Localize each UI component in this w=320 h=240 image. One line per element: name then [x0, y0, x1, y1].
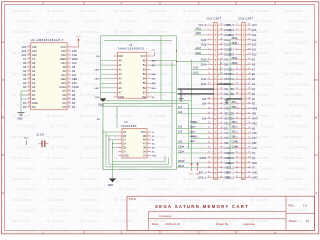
CN1 pin 26 — [177, 146, 231, 150]
svg-text:D13A: D13A — [224, 39, 230, 42]
svg-text:28: 28 — [208, 157, 210, 159]
svg-text:A3: A3 — [23, 73, 27, 77]
U2 pin 13 (left row 8) — [94, 87, 122, 90]
junction U3 row 3 — [108, 139, 109, 140]
svg-text:1A15: 1A15 — [201, 58, 207, 61]
svg-text:1A8: 1A8 — [202, 103, 207, 106]
svg-text:46: 46 — [220, 88, 222, 90]
U1 pin 26 (left row 7) — [23, 69, 36, 73]
svg-text:by traines: by traines — [51, 167, 70, 171]
svg-text:35: 35 — [220, 34, 222, 36]
CN1 pin 31 — [199, 171, 230, 174]
U1 pin 20 (left row 13) — [27, 93, 36, 97]
svg-text:19: 19 — [236, 112, 238, 114]
connector CN2 — [239, 17, 254, 179]
svg-text:GND_1: GND_1 — [198, 178, 206, 180]
svg-text:2B15: 2B15 — [232, 58, 238, 60]
svg-text:A: A — [2, 40, 4, 44]
power flag VCC (U1 pin 1) — [71, 36, 81, 47]
svg-text:26: 26 — [208, 147, 210, 149]
svg-text:CS2: CS2 — [224, 133, 229, 135]
frame row ticks — [2, 80, 319, 155]
svg-text:by traines: by traines — [148, 135, 167, 139]
svg-text:A2: A2 — [32, 77, 36, 81]
svg-text:64: 64 — [248, 176, 250, 178]
CN1 pin 29 — [177, 161, 232, 165]
svg-text:D5: D5 — [62, 97, 66, 101]
svg-text:37: 37 — [220, 43, 222, 45]
ground symbol GND (left of CN1) — [179, 99, 184, 102]
svg-text:43: 43 — [248, 73, 250, 75]
svg-text:43: 43 — [220, 73, 222, 75]
svg-text:47: 47 — [220, 93, 222, 95]
svg-text:3: 3 — [209, 34, 210, 36]
svg-text:54: 54 — [248, 127, 250, 129]
svg-text:2B19: 2B19 — [232, 38, 238, 40]
svg-text:2B0: 2B0 — [232, 137, 237, 139]
svg-text:1A18: 1A18 — [201, 44, 207, 47]
U1 pin 1 (right row 1) — [60, 45, 71, 49]
svg-text:by traines: by traines — [153, 188, 172, 192]
svg-text:by traines: by traines — [289, 41, 308, 45]
svg-text:62: 62 — [220, 166, 222, 168]
U1 pin 31 (left row 2) — [22, 49, 38, 53]
svg-text:1/1: 1/1 — [306, 219, 310, 223]
svg-text:17: 17 — [28, 106, 30, 108]
svg-text:E14: E14 — [252, 35, 257, 37]
wire vertical x188.5 — [188, 103, 190, 148]
svg-text:34: 34 — [248, 29, 250, 31]
svg-text:59: 59 — [220, 152, 222, 154]
CN1 pin 27 — [177, 151, 230, 155]
svg-text:38: 38 — [248, 48, 250, 50]
svg-text:GND: GND — [95, 97, 100, 99]
svg-text:RST_1: RST_1 — [199, 173, 207, 175]
wire gnd drop x181 — [180, 89, 182, 98]
svg-text:by traines: by traines — [284, 156, 303, 160]
svg-text:by traines: by traines — [51, 125, 70, 129]
svg-text:by traines: by traines — [80, 72, 99, 76]
CN2 pin 28 — [227, 157, 255, 160]
U1 pin 19 (left row 14) — [27, 97, 36, 101]
CN1 pin 20 — [202, 117, 231, 120]
svg-text:4: 4 — [209, 38, 210, 40]
svg-text:28: 28 — [28, 62, 30, 64]
svg-text:21: 21 — [236, 122, 238, 124]
svg-text:40: 40 — [248, 58, 250, 60]
CN2 pin 32 — [226, 176, 257, 179]
wire U3 left row 3 — [109, 139, 118, 141]
U2 pin 14 (left row 7) — [101, 82, 123, 85]
svg-text:by traines: by traines — [51, 209, 70, 213]
svg-text:60: 60 — [248, 157, 250, 159]
svg-text:2B8: 2B8 — [230, 94, 235, 96]
svg-text:64: 64 — [220, 176, 222, 178]
svg-text:20: 20 — [208, 117, 210, 119]
svg-text:A7: A7 — [32, 57, 36, 61]
svg-text:42: 42 — [220, 68, 222, 70]
svg-text:23: 23 — [28, 82, 30, 84]
svg-text:58: 58 — [248, 147, 250, 149]
svg-text:15: 15 — [68, 102, 70, 104]
svg-text:by traines: by traines — [12, 177, 31, 181]
svg-text:D6: D6 — [62, 93, 66, 97]
svg-text:13: 13 — [208, 83, 210, 85]
svg-text:17: 17 — [208, 102, 210, 104]
U1 pin 27 (left row 6) — [23, 65, 36, 69]
svg-text:by traines: by traines — [148, 114, 167, 118]
svg-text:RST_2: RST_2 — [227, 173, 235, 175]
CN2 pin 14 — [230, 88, 256, 91]
svg-text:by traines: by traines — [284, 198, 303, 202]
svg-text:by traines: by traines — [80, 51, 99, 55]
svg-text:10: 10 — [68, 82, 70, 84]
svg-text:CS1#: CS1# — [72, 85, 79, 89]
svg-text:11: 11 — [68, 86, 70, 88]
svg-text:by traines: by traines — [182, 219, 201, 223]
svg-text:D4: D4 — [72, 101, 76, 105]
CN2 pin 21 — [230, 122, 257, 126]
svg-text:Date:: Date: — [152, 222, 159, 226]
svg-text:31: 31 — [236, 171, 238, 173]
svg-text:59: 59 — [248, 152, 250, 154]
svg-text:D9A: D9A — [224, 58, 229, 61]
frame column ticks top — [84, 2, 236, 5]
svg-text:25: 25 — [208, 142, 210, 144]
svg-text:33: 33 — [220, 24, 222, 26]
wire U3 bus vertical x112 — [112, 140, 114, 162]
svg-text:VCC_5: VCC_5 — [198, 25, 206, 27]
CN2 pin 7 — [228, 53, 256, 56]
svg-text:1Y: 1Y — [123, 139, 126, 142]
svg-text:1A: 1A — [123, 131, 126, 134]
svg-text:61: 61 — [248, 161, 250, 163]
CN2 pin 4 — [230, 38, 257, 42]
svg-text:24: 24 — [236, 137, 238, 139]
svg-text:GND: GND — [108, 184, 114, 187]
svg-text:by traines: by traines — [85, 125, 104, 129]
svg-text:A9: A9 — [63, 69, 67, 73]
svg-text:5V: 5V — [252, 168, 255, 170]
svg-text:10: 10 — [208, 68, 210, 70]
svg-text:A3: A3 — [32, 73, 36, 77]
svg-text:by traines: by traines — [119, 209, 138, 213]
svg-text:2: 2 — [209, 29, 210, 31]
net labels column right of U3 — [190, 121, 196, 144]
svg-text:A12: A12 — [32, 53, 37, 57]
svg-text:GND: GND — [252, 173, 257, 175]
svg-text:by traines: by traines — [284, 51, 303, 55]
svg-text:by traines: by traines — [289, 125, 308, 129]
svg-text:52: 52 — [248, 117, 250, 119]
power flag VBB (right of U3) — [195, 162, 200, 175]
svg-text:A14: A14 — [22, 49, 27, 53]
wire U3 bus vertical x103 — [102, 130, 104, 170]
svg-text:46: 46 — [248, 88, 250, 90]
svg-text:31: 31 — [28, 50, 30, 52]
CN2 pin 8 — [230, 58, 256, 62]
svg-text:15: 15 — [236, 93, 238, 95]
svg-text:WR3#: WR3# — [227, 158, 234, 160]
svg-text:by traines: by traines — [289, 188, 308, 192]
svg-text:GND: GND — [123, 154, 129, 157]
CN2 pin 1 — [226, 24, 257, 27]
svg-text:11: 11 — [208, 73, 210, 75]
svg-text:NC: NC — [252, 153, 256, 155]
svg-text:by traines: by traines — [51, 188, 70, 192]
svg-text:54: 54 — [220, 127, 222, 129]
svg-text:25: 25 — [28, 74, 30, 76]
svg-text:by traines: by traines — [289, 104, 308, 108]
CN1 pin 24 — [192, 136, 230, 141]
svg-text:7: 7 — [69, 70, 70, 72]
CN1 pin 21 — [192, 121, 231, 126]
svg-text:by traines: by traines — [153, 146, 172, 150]
svg-text:74HC157D: 74HC157D — [121, 124, 137, 128]
svg-text:by traines: by traines — [148, 9, 167, 13]
svg-text:6: 6 — [69, 66, 70, 68]
wire U3 bus vertical x109 — [108, 136, 110, 164]
svg-text:A1: A1 — [32, 81, 36, 85]
wire U3 left row 1 — [103, 131, 118, 133]
wire U1 left gnd row 3 — [21, 98, 27, 100]
CN2 pin 16 — [242, 98, 255, 101]
svg-text:by traines: by traines — [255, 104, 274, 108]
svg-text:18: 18 — [28, 102, 30, 104]
CN1 pin 32 — [198, 176, 229, 179]
svg-text:SND: SND — [252, 163, 257, 165]
svg-text:2B: 2B — [123, 147, 126, 150]
buffer U2 body — [118, 52, 147, 98]
svg-text:by traines: by traines — [250, 198, 269, 202]
U3 pin 4 (right row 4) — [143, 143, 155, 146]
CN1 pin 1 — [198, 24, 231, 27]
svg-text:2B4: 2B4 — [230, 118, 235, 120]
wire to CN1 row — [177, 61, 210, 63]
U1 pin 3 (right row 3) — [61, 53, 78, 57]
svg-text:10: 10 — [236, 68, 238, 70]
U2 pin 1 (right row 1) — [141, 55, 151, 58]
svg-text:GND: GND — [152, 155, 157, 157]
U3 pin 6 (right row 6) — [143, 150, 155, 153]
svg-text:A0: A0 — [23, 85, 27, 89]
svg-text:19: 19 — [28, 98, 30, 100]
svg-text:CN2 CART: CN2 CART — [239, 17, 254, 20]
svg-text:63: 63 — [220, 171, 222, 173]
U1 pin 28 (left row 5) — [23, 61, 36, 65]
U2 pin 4 (right row 4) — [143, 69, 151, 72]
svg-text:29: 29 — [236, 161, 238, 163]
svg-text:1A6: 1A6 — [178, 111, 183, 114]
svg-text:by traines: by traines — [289, 209, 308, 213]
svg-text:by traines: by traines — [17, 146, 36, 150]
svg-text:1A12: 1A12 — [193, 72, 199, 75]
svg-text:2B13: 2B13 — [228, 69, 234, 71]
svg-text:by traines: by traines — [17, 20, 36, 24]
svg-text:53: 53 — [220, 122, 222, 124]
svg-text:A0: A0 — [32, 85, 36, 89]
svg-text:by traines: by traines — [17, 188, 36, 192]
svg-text:D5: D5 — [72, 97, 76, 101]
svg-text:2B16: 2B16 — [228, 55, 234, 57]
CN2 pin 18 — [230, 107, 257, 111]
svg-text:by traines: by traines — [284, 177, 303, 181]
U1 pin 12 (right row 12) — [62, 89, 75, 93]
CN1 pin 19 — [177, 111, 231, 116]
svg-text:D8A: D8A — [224, 63, 229, 66]
U2 pin 9 (right row 9) — [143, 91, 177, 94]
svg-text:by traines: by traines — [46, 9, 65, 13]
svg-text:1A16: 1A16 — [196, 52, 202, 55]
svg-text:49: 49 — [248, 102, 250, 104]
svg-text:4A: 4A — [143, 139, 146, 142]
svg-text:A8: A8 — [72, 65, 76, 69]
svg-text:12: 12 — [208, 78, 210, 80]
wire bus top — [101, 35, 177, 37]
CN1 pin 22 — [177, 126, 230, 131]
wire vertical x230 (CN2 feed) — [229, 40, 231, 170]
CN2 pin 19 — [230, 112, 257, 115]
svg-text:27: 27 — [208, 152, 210, 154]
svg-text:21: 21 — [28, 90, 30, 92]
svg-text:9: 9 — [69, 78, 70, 80]
svg-text:E11: E11 — [252, 50, 257, 52]
wire gnd black CN1 row15 — [178, 93, 214, 95]
CN1 pin 7 — [194, 52, 230, 57]
svg-text:B: B — [315, 116, 317, 120]
svg-text:by traines: by traines — [119, 188, 138, 192]
svg-text:by traines: by traines — [255, 62, 274, 66]
CN2 pin 13 — [228, 83, 255, 86]
svg-text:14: 14 — [68, 98, 70, 100]
svg-text:48: 48 — [248, 98, 250, 100]
svg-text:by traines: by traines — [153, 104, 172, 108]
junction U3 row 2 — [105, 135, 106, 136]
svg-text:39: 39 — [220, 53, 222, 55]
U1 pin 25 (left row 8) — [23, 73, 36, 77]
U2 pin 10 (right row 10) — [142, 96, 155, 99]
svg-text:2B5: 2B5 — [230, 114, 235, 116]
svg-text:A2: A2 — [23, 77, 27, 81]
svg-text:28: 28 — [236, 157, 238, 159]
CN1 pin 9 — [201, 63, 230, 66]
svg-text:2B6: 2B6 — [232, 107, 237, 109]
wire U3 left row 2 — [106, 135, 118, 137]
svg-text:16: 16 — [68, 106, 70, 108]
svg-text:2B3: 2B3 — [232, 122, 237, 124]
svg-text:1: 1 — [237, 24, 238, 26]
CN2 pin 27 — [227, 152, 255, 155]
svg-text:2: 2 — [237, 29, 238, 31]
svg-text:1A17: 1A17 — [94, 87, 100, 90]
CN2 pin 26 — [230, 146, 257, 150]
svg-text:RD2#: RD2# — [228, 163, 235, 165]
svg-text:1B: 1B — [123, 135, 126, 138]
svg-text:by traines: by traines — [119, 104, 138, 108]
svg-text:by traines: by traines — [80, 114, 99, 118]
svg-text:BA20: BA20 — [190, 130, 196, 133]
CN1 pin 11 — [192, 72, 230, 77]
test point TP1 — [24, 138, 29, 145]
U1 pin 2 (right row 2) — [61, 49, 77, 53]
svg-text:38: 38 — [220, 48, 222, 50]
U3 pin 9 (left row 6) — [118, 150, 126, 153]
svg-text:OE#: OE# — [61, 77, 67, 81]
svg-text:27: 27 — [28, 66, 30, 68]
svg-text:5: 5 — [209, 43, 210, 45]
frame row letters — [2, 40, 317, 195]
svg-text:29: 29 — [28, 58, 30, 60]
U1 pin 14 (right row 14) — [62, 97, 75, 101]
U3 pin 1 (right row 1) — [141, 131, 155, 134]
svg-text:by traines: by traines — [250, 9, 269, 13]
svg-text:2B21: 2B21 — [228, 30, 234, 32]
svg-text:by traines: by traines — [148, 198, 167, 202]
svg-text:by traines: by traines — [46, 177, 65, 181]
svg-text:VCC: VCC — [141, 55, 146, 58]
svg-text:2B1: 2B1 — [232, 132, 237, 134]
svg-text:WE#: WE# — [72, 57, 78, 61]
wire U1 gnd vertical — [20, 91, 22, 113]
svg-text:by traines: by traines — [80, 30, 99, 34]
svg-text:+5V: +5V — [151, 50, 155, 52]
svg-text:VCC: VCC — [60, 45, 66, 49]
svg-text:D7: D7 — [72, 89, 76, 93]
svg-text:2019-10-19: 2019-10-19 — [166, 222, 181, 226]
svg-text:23: 23 — [236, 132, 238, 134]
svg-text:by traines: by traines — [289, 62, 308, 66]
svg-text:3: 3 — [237, 34, 238, 36]
svg-text:2B18: 2B18 — [232, 43, 238, 45]
svg-text:56: 56 — [220, 137, 222, 139]
svg-text:by traines: by traines — [80, 156, 99, 160]
wire left drop x103 — [102, 103, 104, 169]
CN2 pin 20 — [230, 117, 259, 120]
svg-text:6: 6 — [237, 48, 238, 50]
svg-text:A5: A5 — [23, 65, 27, 69]
U1 pin 9 (right row 9) — [61, 77, 78, 81]
CN2 pin 6 — [228, 48, 256, 51]
svg-text:by traines: by traines — [289, 83, 308, 87]
svg-text:A8: A8 — [63, 65, 67, 69]
U2 pin 18 (left row 3) — [101, 64, 123, 67]
svg-text:A7: A7 — [23, 57, 27, 61]
CN1 pin 6 — [194, 47, 230, 52]
svg-text:by traines: by traines — [46, 114, 65, 118]
U1 pin 30 (left row 3) — [22, 53, 38, 57]
svg-text:D2A: D2A — [224, 93, 229, 96]
svg-text:E13: E13 — [252, 40, 257, 42]
svg-text:A11: A11 — [72, 73, 77, 77]
svg-text:9: 9 — [209, 63, 210, 65]
svg-text:by traines: by traines — [12, 30, 31, 34]
svg-text:36: 36 — [248, 38, 250, 40]
CN2 pin 11 — [228, 73, 255, 76]
svg-text:13: 13 — [236, 83, 238, 85]
U1 pin 17 (left row 16) — [23, 105, 36, 109]
svg-text:11: 11 — [236, 73, 238, 75]
svg-text:by traines: by traines — [114, 177, 133, 181]
svg-text:E10: E10 — [252, 55, 257, 57]
CN2 pin 23 — [230, 132, 257, 136]
svg-text:1A0: 1A0 — [178, 140, 183, 143]
svg-text:A11: A11 — [61, 73, 66, 77]
svg-text:by traines: by traines — [255, 20, 274, 24]
svg-text:CS0#: CS0# — [178, 146, 185, 148]
svg-text:1A14: 1A14 — [201, 63, 207, 66]
U2 pin 11 (left row 10) — [95, 96, 125, 99]
U3 pin 12 (left row 3) — [118, 139, 126, 142]
